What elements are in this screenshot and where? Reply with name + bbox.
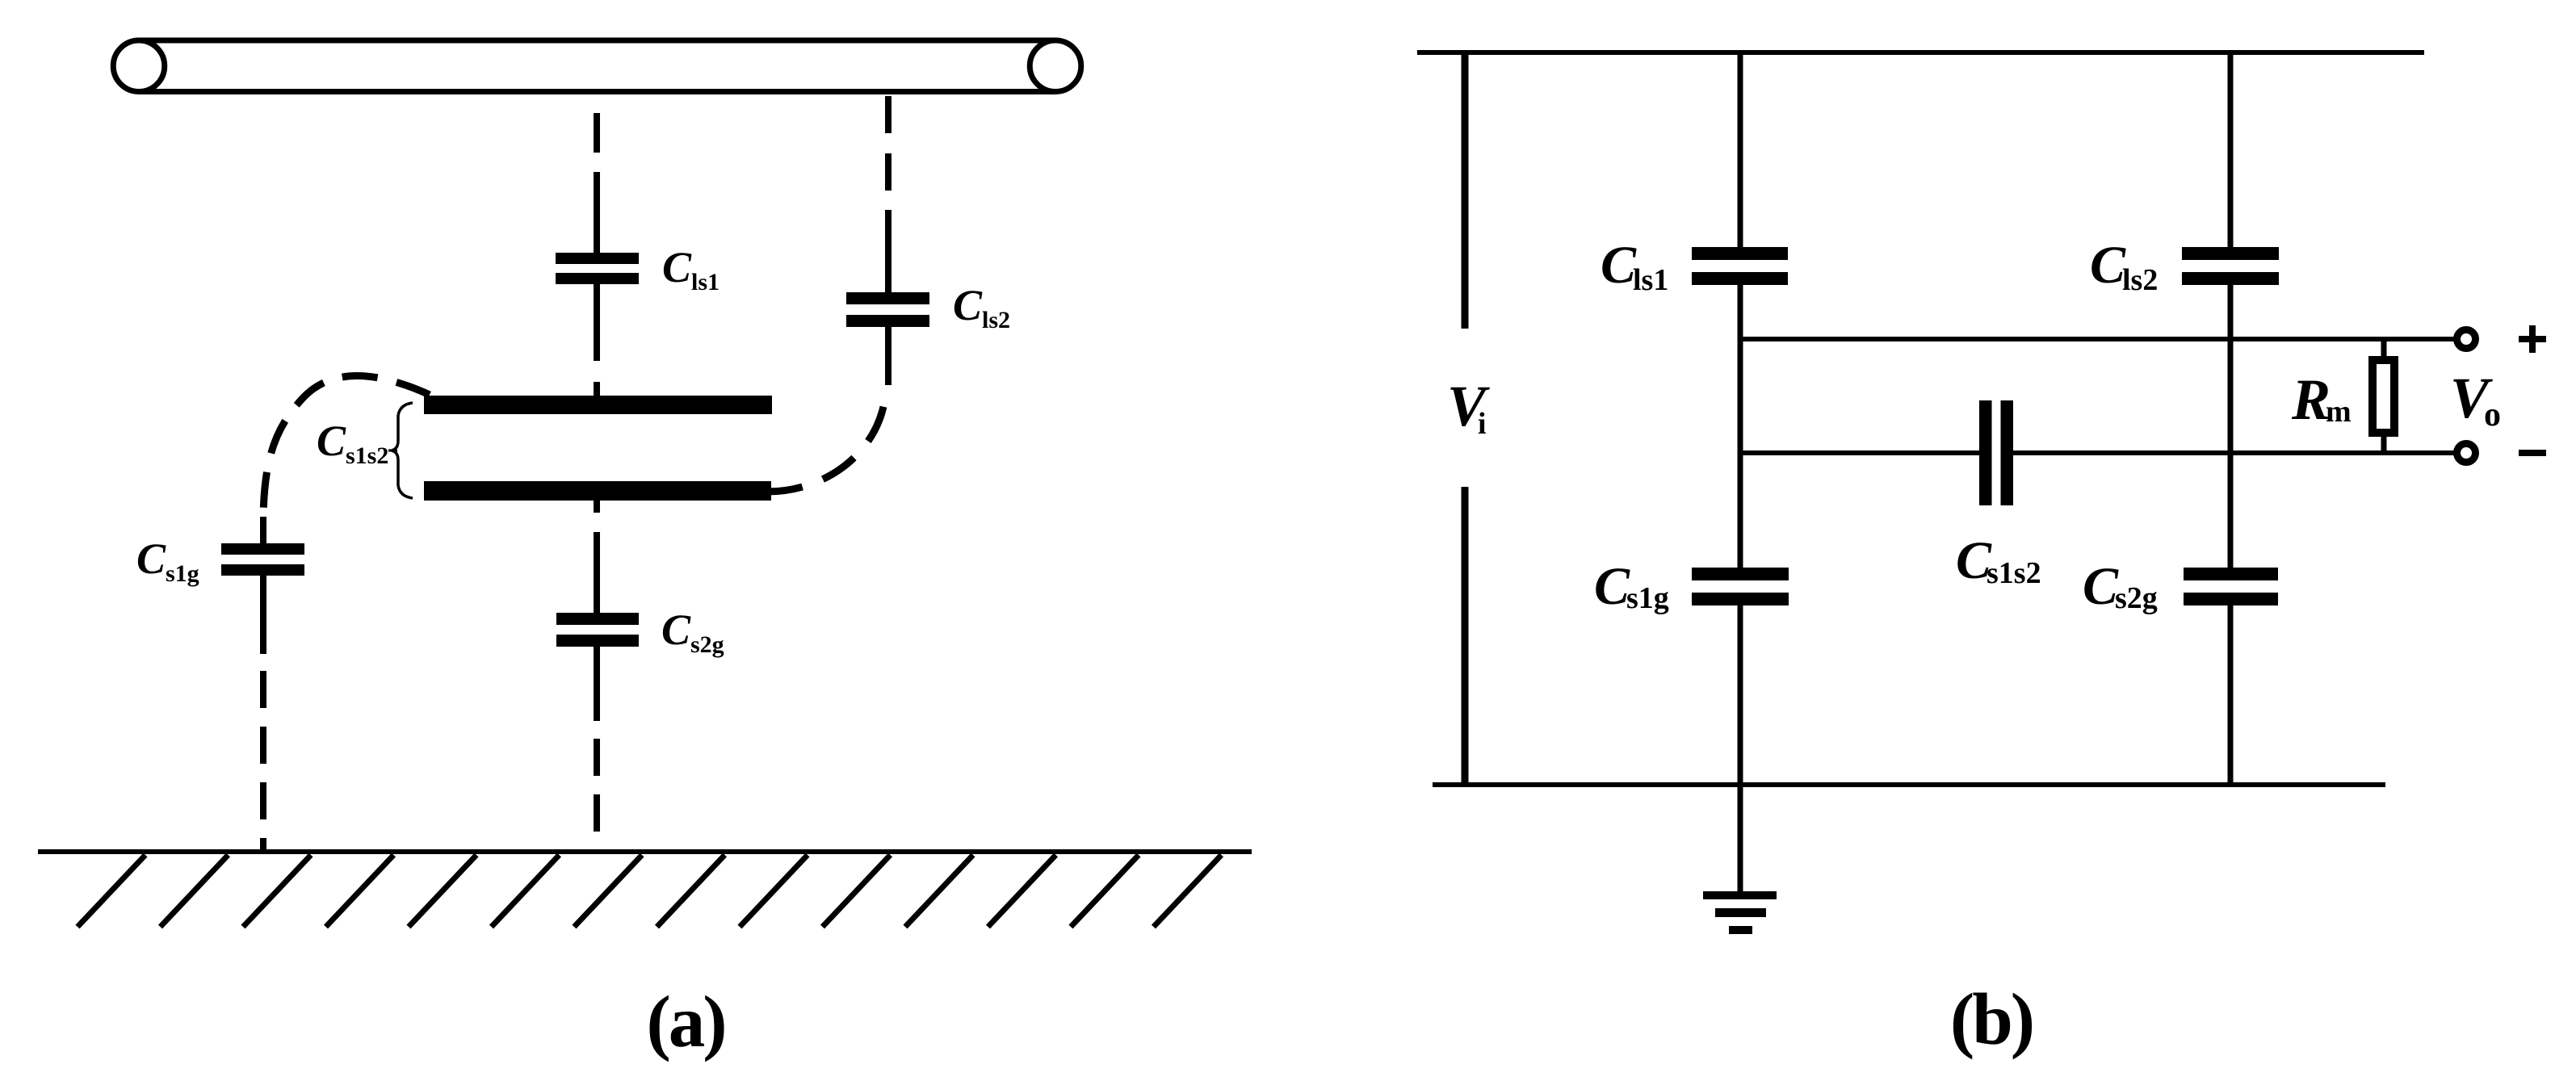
minus sign <box>2519 450 2546 456</box>
wire Cs1g lead (solid) <box>260 517 266 543</box>
- rail wire right of Cs1s2 <box>2013 450 2456 455</box>
wire Cls1-to-Cs1g node (b) <box>1738 285 1743 568</box>
output terminal + (circle) <box>2457 330 2476 349</box>
svg-text:C: C <box>1601 236 1637 295</box>
wire (dashed arc) Cls2 lead to sensor plate 2 <box>767 385 886 492</box>
transmission line (cylinder body top) <box>139 38 1055 44</box>
+ rail wire <box>1740 337 2456 341</box>
capacitor Cs1g (b) bottom plate <box>1692 593 1789 605</box>
ground plane line (a) <box>38 849 1252 854</box>
svg-text:C: C <box>2090 236 2126 295</box>
transmission line left end circle <box>113 40 165 92</box>
capacitor Cs2g (a) top plate <box>556 613 639 625</box>
svg-text:C: C <box>2083 557 2119 616</box>
wire plate2 stub (dash) <box>594 501 600 513</box>
brace for Cs1s2 <box>392 403 413 498</box>
capacitor Cs1g (b) top plate <box>1692 568 1789 580</box>
source Vi lower lead <box>1462 487 1469 785</box>
capacitor Cls2 (a) top plate <box>846 292 929 304</box>
resistor Rm lead top <box>2381 339 2387 356</box>
capacitor Cs2g (a) bottom plate <box>556 635 639 647</box>
capacitor Cs2g (b) bottom plate <box>2184 593 2278 605</box>
tick from label to brace <box>388 450 397 452</box>
svg-text:(b): (b) <box>1950 978 2033 1060</box>
svg-text:(a): (a) <box>646 981 724 1062</box>
capacitor Cs1s2 (b) left plate <box>1979 400 1992 505</box>
wire Cls2-to-plate2 (solid lead) <box>885 327 892 385</box>
wire Cs2g-to-bottom (b) <box>2228 605 2234 785</box>
ground symbol bar 1 <box>1703 891 1777 899</box>
capacitor Cls1 (b) bottom plate <box>1692 272 1788 285</box>
svg-text:i: i <box>1478 407 1487 441</box>
svg-text:R: R <box>2291 367 2331 432</box>
wire top-to-Cls2 (b) <box>2228 52 2234 247</box>
svg-text:o: o <box>2484 396 2501 434</box>
transmission line right end circle <box>1030 40 1081 92</box>
wire Cs1g-to-ground (solid then dashed) <box>260 576 266 654</box>
svg-text:ls1: ls1 <box>691 269 720 295</box>
wire (dashed) line-to-Cls2 <box>885 96 892 292</box>
svg-text:s1g: s1g <box>1626 581 1669 615</box>
capacitor Cs1g (a) top plate <box>221 543 304 555</box>
svg-text:C: C <box>953 281 983 329</box>
svg-text:s1s2: s1s2 <box>1987 556 2041 590</box>
svg-text:s1g: s1g <box>166 560 199 587</box>
ground stem (b) <box>1738 785 1743 891</box>
source Vi upper lead <box>1462 52 1469 329</box>
svg-text:C: C <box>317 417 346 465</box>
wire Cs1g-to-bottom (b) <box>1738 605 1743 785</box>
svg-text:s2g: s2g <box>690 631 724 658</box>
wire (dashed arc) plate1 to Cs1g <box>263 376 430 518</box>
wire Cls1-to-plate1 (solid then dash) <box>594 284 600 396</box>
capacitor Cls1 (b) top plate <box>1692 247 1788 260</box>
svg-text:ls1: ls1 <box>1633 263 1668 297</box>
svg-text:m: m <box>2326 395 2352 429</box>
ground hatching (a) <box>78 855 1222 927</box>
ground symbol bar 3 <box>1729 926 1752 934</box>
bottom wire (b) <box>1433 782 2385 787</box>
sensor plate 1 (top thick bar) <box>424 396 772 414</box>
resistor Rm lead bottom <box>2381 433 2387 453</box>
svg-text:ls2: ls2 <box>982 307 1010 333</box>
capacitor Cls2 (b) bottom plate <box>2182 272 2279 285</box>
svg-text:C: C <box>136 534 166 583</box>
plus sign <box>2519 325 2546 353</box>
capacitor Cls2 (a) bottom plate <box>846 315 929 327</box>
svg-text:s2g: s2g <box>2115 581 2158 615</box>
wire Cs2g-to-ground (solid then dashed) <box>594 646 600 721</box>
wire top-to-Cls1 (b) <box>1738 52 1743 247</box>
sensor plate 2 (bottom thick bar) <box>424 481 771 501</box>
capacitor Cs1s2 (b) right plate <box>2001 400 2014 505</box>
capacitor Cls1 (a) bottom plate <box>556 273 639 284</box>
top wire (b) <box>1417 50 2424 55</box>
svg-text:C: C <box>662 243 692 291</box>
output terminal - (circle) <box>2457 444 2476 463</box>
svg-text:C: C <box>661 605 691 654</box>
svg-text:C: C <box>1594 557 1630 616</box>
capacitor Cs1g (a) bottom plate <box>221 564 304 576</box>
wire plate2-to-Cs2g (solid lead) <box>594 532 600 613</box>
ground symbol bar 2 <box>1715 908 1766 917</box>
transmission line (cylinder body bottom) <box>139 89 1055 94</box>
wire (dashed) line-to-Cls1 <box>594 113 600 253</box>
svg-text:ls2: ls2 <box>2122 263 2158 297</box>
capacitor Cs2g (b) top plate <box>2184 568 2278 580</box>
resistor Rm body <box>2373 360 2394 433</box>
wire Cls2-to-Cs2g node (b) <box>2228 285 2234 568</box>
capacitor Cls2 (b) top plate <box>2182 247 2279 260</box>
- rail wire left of Cs1s2 <box>1740 450 1979 455</box>
capacitor Cls1 (a) top plate <box>556 253 639 264</box>
svg-text:s1s2: s1s2 <box>346 442 388 469</box>
